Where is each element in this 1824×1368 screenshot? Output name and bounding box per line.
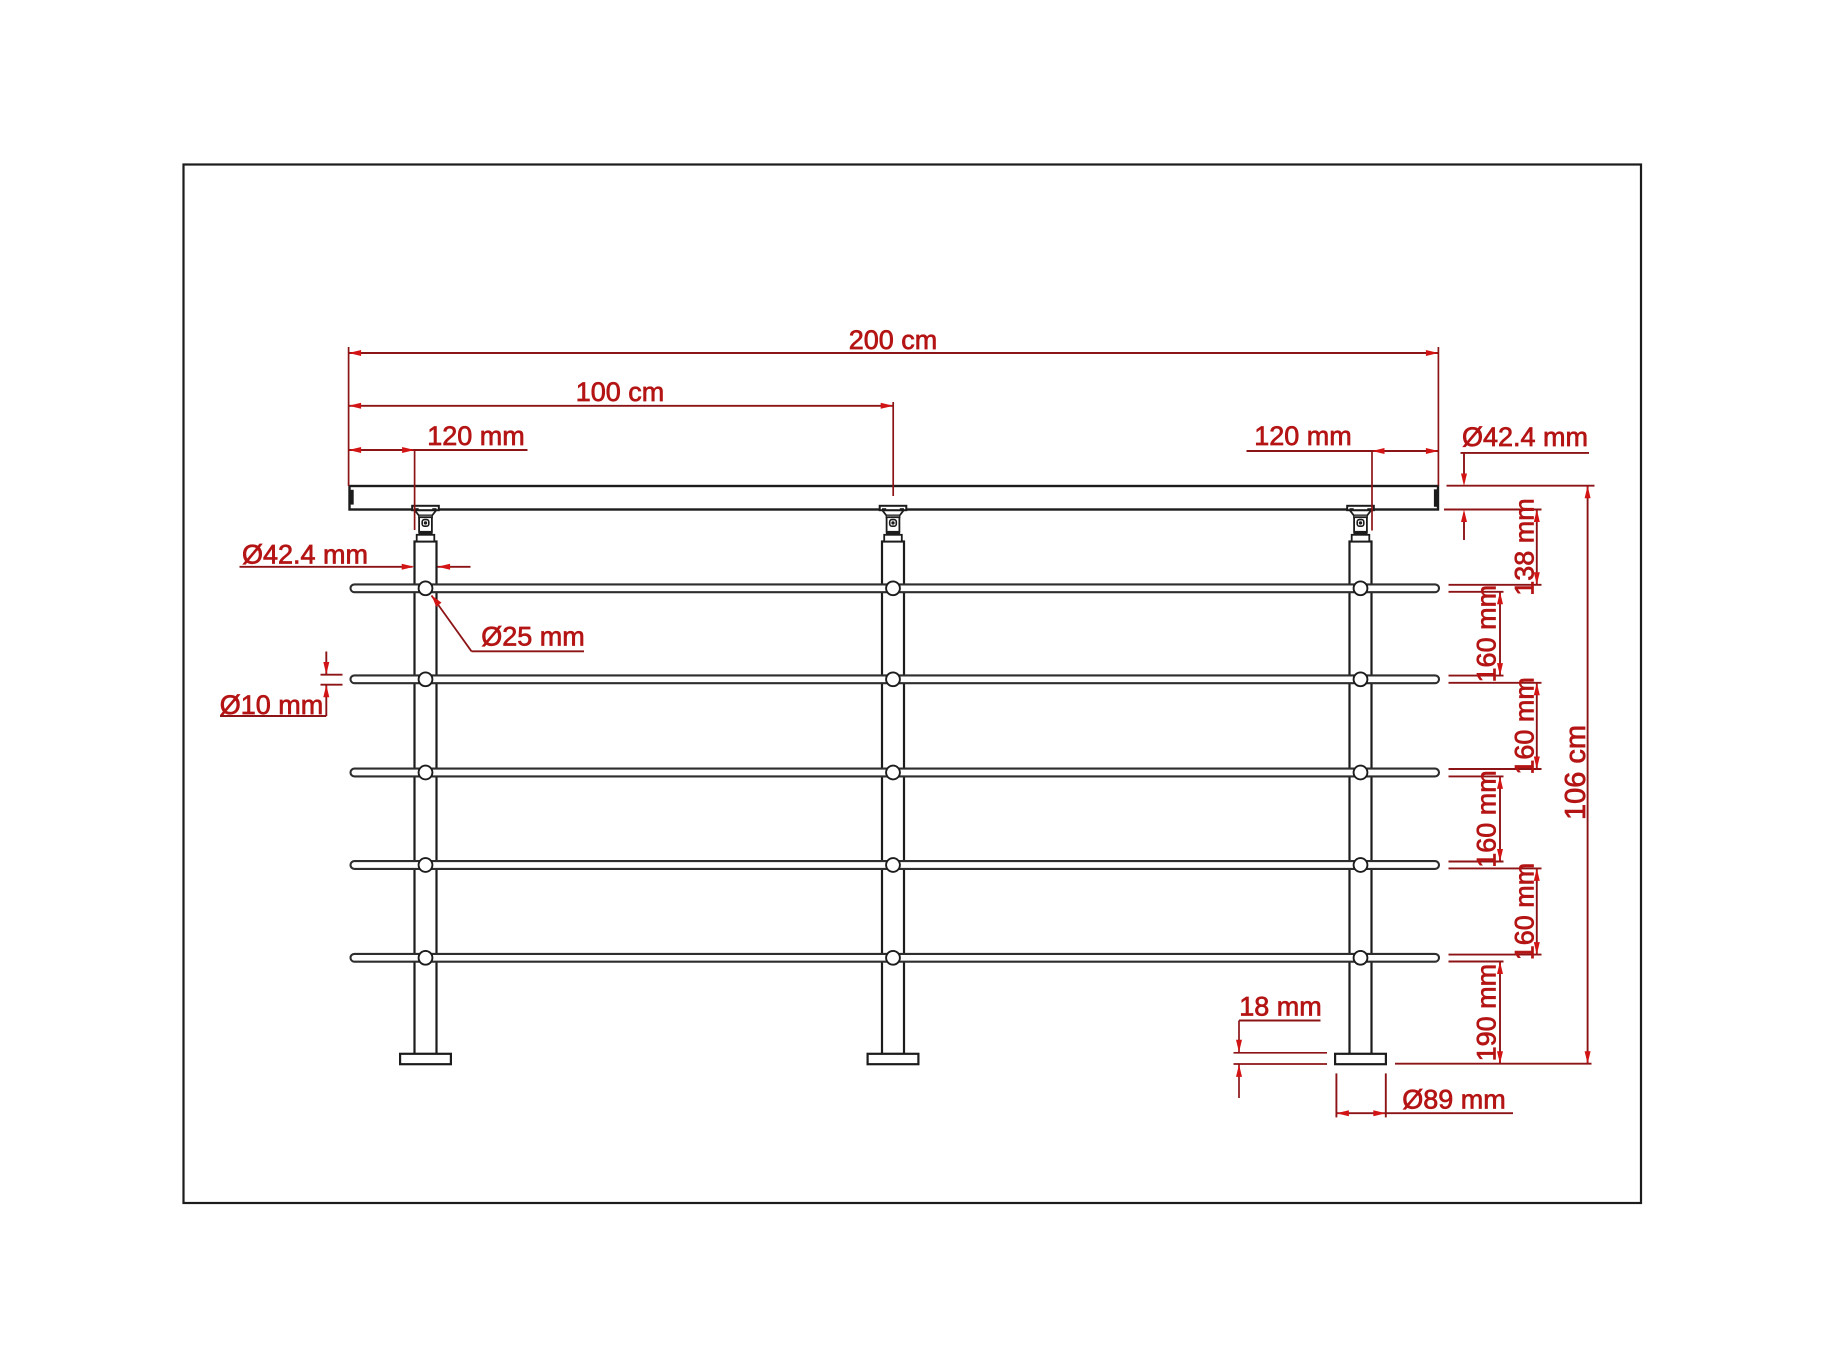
post 1 (vertical baluster tube) bbox=[415, 542, 437, 1055]
saddle fitting (adjustable handrail support) post 2 bbox=[880, 506, 907, 542]
crossbar holder circle post2-rail3 bbox=[886, 766, 900, 780]
extension line: rail2 bottom bbox=[1449, 682, 1542, 684]
dimension 160 mm (rail3-rail4 gap) bbox=[1472, 770, 1504, 868]
svg-text:Ø25 mm: Ø25 mm bbox=[481, 622, 585, 652]
extension line: rail5 bottom bbox=[1449, 961, 1504, 963]
extension line: left end of handrail (serves 200cm/100cm/120mm dims) bbox=[348, 347, 350, 486]
dimension Ø10 mm (crossbar diameter) bbox=[220, 652, 343, 721]
extension line: base plate left edge (Ø89 dim) bbox=[1335, 1073, 1337, 1117]
floor reference line bbox=[1395, 1063, 1592, 1065]
svg-text:18 mm: 18 mm bbox=[1239, 992, 1322, 1022]
dimension 106 cm (overall height) bbox=[1560, 486, 1592, 1064]
svg-text:Ø89 mm: Ø89 mm bbox=[1402, 1085, 1506, 1115]
crossbar holder circle post3-rail2 bbox=[1354, 672, 1368, 686]
extension line: post1 left edge (serves left 120mm dim) bbox=[414, 450, 416, 530]
crossbar holder circle post2-rail5 bbox=[886, 951, 900, 965]
dimension Ø42.4 mm (post diameter, left) bbox=[240, 540, 471, 570]
extension line: rail4 top bbox=[1449, 861, 1504, 863]
crossbar holder circle post3-rail4 bbox=[1354, 858, 1368, 872]
crossbar holder circle post1-rail2 bbox=[419, 672, 433, 686]
crossbar holder circle post2-rail2 bbox=[886, 672, 900, 686]
extension line: right end of handrail (serves 200cm/120mm dims) bbox=[1437, 347, 1439, 486]
extension line: handrail bottom (serves Ø42.4 and 138mm dims) bbox=[1444, 509, 1542, 511]
dimension Ø89 mm (base plate diameter) bbox=[1336, 1085, 1513, 1117]
dimension Ø42.4 mm (handrail diameter, top right) bbox=[1461, 422, 1590, 540]
crossbar holder circle post3-rail1 bbox=[1354, 581, 1368, 595]
svg-text:160 mm: 160 mm bbox=[1510, 863, 1540, 961]
dimension 200 cm (overall length) bbox=[349, 325, 1439, 356]
post 2 (vertical baluster tube) bbox=[882, 542, 904, 1055]
extension line: rail3 bottom bbox=[1449, 775, 1504, 777]
rail 3 (horizontal crossbar Ø10) bbox=[351, 769, 1440, 777]
crossbar holder circle post3-rail5 bbox=[1354, 951, 1368, 965]
crossbar holder circle post1-rail1 bbox=[419, 581, 433, 595]
svg-text:160 mm: 160 mm bbox=[1472, 585, 1502, 683]
dimension Ø25 mm (holder circle, leader) bbox=[431, 595, 584, 651]
post 3 (vertical baluster tube) bbox=[1350, 542, 1372, 1055]
dimension 190 mm (rail5 to floor) bbox=[1472, 962, 1504, 1064]
crossbar holder circle post1-rail4 bbox=[419, 858, 433, 872]
base plate post 2 (Ø89 flange) bbox=[868, 1054, 919, 1064]
rail 1 (horizontal crossbar Ø10) bbox=[351, 584, 1440, 592]
svg-text:100 cm: 100 cm bbox=[576, 377, 665, 407]
extension line: handrail top (serves Ø42.4 and 106cm dims) bbox=[1447, 485, 1595, 487]
extension line: rail5 top bbox=[1449, 954, 1542, 956]
handrail end cap left bbox=[350, 490, 354, 505]
extension line: base plate right edge (Ø89 dim) bbox=[1385, 1073, 1387, 1117]
dimension 160 mm (rail4-rail5 gap) bbox=[1510, 863, 1540, 961]
svg-text:120 mm: 120 mm bbox=[1254, 421, 1352, 451]
crossbar holder circle post2-rail1 bbox=[886, 581, 900, 595]
svg-text:200 cm: 200 cm bbox=[849, 325, 938, 355]
svg-text:190 mm: 190 mm bbox=[1472, 964, 1502, 1062]
crossbar holder circle post2-rail4 bbox=[886, 858, 900, 872]
svg-text:120 mm: 120 mm bbox=[427, 421, 525, 451]
handrail (top tube Ø42.4) bbox=[350, 486, 1439, 510]
base plate post 1 (Ø89 flange) bbox=[400, 1054, 451, 1064]
dimension 18 mm (base plate thickness) bbox=[1234, 992, 1328, 1099]
extension line: rail3 top bbox=[1449, 768, 1542, 770]
crossbar holder circle post1-rail5 bbox=[419, 951, 433, 965]
extension line: rail2 top bbox=[1449, 675, 1504, 677]
svg-text:160 mm: 160 mm bbox=[1472, 770, 1502, 868]
saddle fitting (adjustable handrail support) post 1 bbox=[412, 506, 439, 542]
handrail end cap right bbox=[1434, 489, 1438, 507]
rail 2 (horizontal crossbar Ø10) bbox=[351, 675, 1440, 683]
dimension 138 mm (handrail to rail1 gap) bbox=[1510, 498, 1540, 596]
dimension 120 mm (last post to right end) bbox=[1247, 421, 1439, 454]
dimension 160 mm (rail2-rail3 gap) bbox=[1510, 677, 1540, 775]
rail 5 (horizontal crossbar Ø10) bbox=[351, 954, 1440, 962]
page frame border bbox=[184, 165, 1642, 1204]
base plate post 3 (Ø89 flange) bbox=[1335, 1054, 1386, 1064]
extension line: rail1 top bbox=[1449, 584, 1542, 586]
rail 4 (horizontal crossbar Ø10) bbox=[351, 861, 1440, 869]
dimension 160 mm (rail1-rail2 gap) bbox=[1472, 585, 1504, 683]
crossbar holder circle post3-rail3 bbox=[1354, 766, 1368, 780]
crossbar holder circle post1-rail3 bbox=[419, 766, 433, 780]
dimension 120 mm (left end to first post) bbox=[349, 421, 528, 453]
svg-text:Ø10 mm: Ø10 mm bbox=[220, 690, 324, 720]
svg-text:138 mm: 138 mm bbox=[1510, 498, 1540, 596]
svg-text:106 cm: 106 cm bbox=[1560, 725, 1592, 820]
svg-text:Ø42.4 mm: Ø42.4 mm bbox=[242, 540, 368, 570]
saddle fitting (adjustable handrail support) post 3 bbox=[1347, 506, 1374, 542]
extension line: rail4 bottom bbox=[1449, 867, 1542, 869]
dimension 100 cm (to middle post) bbox=[349, 377, 894, 409]
svg-text:Ø42.4 mm: Ø42.4 mm bbox=[1462, 422, 1588, 452]
extension line: middle post centre (serves 100cm dim) bbox=[892, 402, 894, 496]
extension line: post3 right edge (serves right 120mm dim) bbox=[1371, 451, 1373, 531]
svg-text:160 mm: 160 mm bbox=[1510, 677, 1540, 775]
extension line: rail1 bottom bbox=[1449, 591, 1504, 593]
